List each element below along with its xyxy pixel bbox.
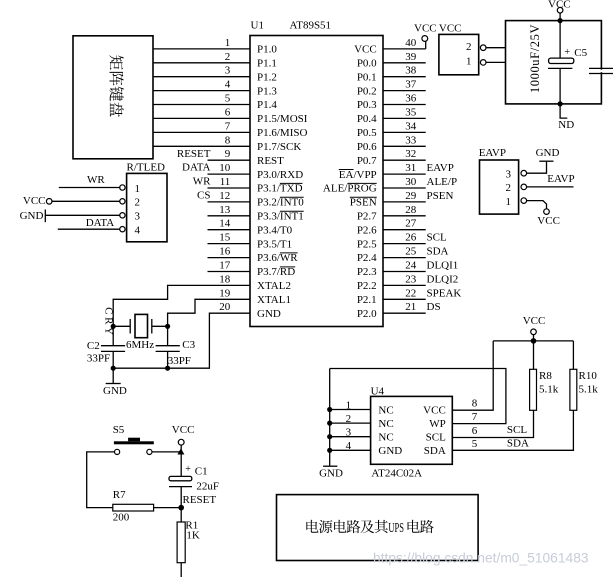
svg-text:P3.3/INT1: P3.3/INT1 <box>257 211 304 223</box>
svg-text:https://blog.csdn.net/m0_51061: https://blog.csdn.net/m0_51061483 <box>373 551 589 566</box>
svg-text:36: 36 <box>405 93 417 105</box>
svg-text:AT24C02A: AT24C02A <box>371 467 422 479</box>
svg-text:1: 1 <box>346 399 352 411</box>
svg-text:25: 25 <box>405 246 417 258</box>
svg-text:9: 9 <box>225 148 231 160</box>
svg-text:1: 1 <box>466 56 472 68</box>
power VCC to R/TLED pin2 <box>23 195 120 207</box>
svg-text:ALE/PROG: ALE/PROG <box>323 183 377 195</box>
svg-text:1000uF/25V: 1000uF/25V <box>528 24 542 93</box>
svg-text:GND: GND <box>536 147 560 159</box>
svg-text:U1: U1 <box>251 20 264 32</box>
svg-text:NC: NC <box>378 432 393 444</box>
svg-text:P1.4: P1.4 <box>257 99 277 111</box>
ground GND at EA/VP pin3 <box>526 147 559 173</box>
U4 right pin numbers 8-5 <box>472 398 478 450</box>
svg-text:PSEN: PSEN <box>427 190 454 202</box>
svg-text:31: 31 <box>405 162 416 174</box>
svg-text:2: 2 <box>466 41 472 53</box>
svg-text:2: 2 <box>135 197 141 209</box>
svg-text:ND: ND <box>558 119 574 131</box>
svg-text:8: 8 <box>472 398 478 410</box>
U1 right pin numbers 40-21 <box>405 37 417 313</box>
svg-text:2: 2 <box>225 51 231 63</box>
capacitor C1 22uF <box>169 452 219 508</box>
svg-text:2: 2 <box>506 182 512 194</box>
svg-text:WP: WP <box>429 418 446 430</box>
svg-text:GND: GND <box>378 445 402 457</box>
svg-text:WR: WR <box>87 174 105 186</box>
svg-text:VCC: VCC <box>414 22 437 34</box>
svg-text:P2.4: P2.4 <box>357 252 377 264</box>
svg-text:P3.5/T1: P3.5/T1 <box>257 238 292 250</box>
wire U4 pin8 VCC riser <box>452 341 493 410</box>
node crystal left <box>111 324 116 329</box>
svg-text:VCC: VCC <box>23 195 46 207</box>
svg-text:DATA: DATA <box>182 162 211 174</box>
wire WR to R/TLED pin1 <box>59 174 120 187</box>
node crystal right <box>165 324 170 329</box>
capacitor C3 33PF <box>156 326 196 368</box>
svg-text:11: 11 <box>220 176 231 188</box>
svg-text:17: 17 <box>219 260 231 272</box>
svg-text:1: 1 <box>225 37 231 49</box>
svg-text:5: 5 <box>225 93 231 105</box>
U1 right net labels <box>427 162 462 313</box>
svg-text:NC: NC <box>378 418 393 430</box>
svg-text:3: 3 <box>135 211 141 223</box>
svg-text:P1.0: P1.0 <box>257 44 277 56</box>
wire S5 right to VCC node <box>152 451 181 453</box>
svg-text:7: 7 <box>225 120 231 132</box>
svg-text:P3.6/WR: P3.6/WR <box>257 252 298 264</box>
svg-text:P0.1: P0.1 <box>357 71 377 83</box>
svg-text:23: 23 <box>405 273 417 285</box>
svg-text:EAVP: EAVP <box>547 173 574 185</box>
node C3 ground <box>165 366 170 371</box>
svg-text:GND: GND <box>103 385 127 397</box>
svg-text:R10: R10 <box>579 370 598 382</box>
node RESET junction <box>178 505 184 511</box>
U1 right pin stubs 40-21 <box>383 49 426 313</box>
resistor R10 5.1k <box>570 341 598 410</box>
U1 left label overlines <box>280 183 304 267</box>
svg-text:21: 21 <box>405 301 416 313</box>
svg-text:10: 10 <box>219 162 231 174</box>
ground GND crystal <box>103 368 127 397</box>
svg-text:5.1k: 5.1k <box>579 383 599 395</box>
svg-text:2: 2 <box>346 413 352 425</box>
U4 left pin stubs 1-4 with rail <box>330 369 371 467</box>
svg-text:SPEAK: SPEAK <box>427 287 462 299</box>
svg-text:SCL: SCL <box>426 432 446 444</box>
U1 right label overlines <box>339 170 377 198</box>
svg-text:+: + <box>564 47 570 58</box>
wire U1 pin20 GND down to ground rail <box>113 313 250 368</box>
svg-text:P3.7/RD: P3.7/RD <box>257 266 295 278</box>
net labels RESET DATA WR CS <box>177 148 211 202</box>
svg-text:35: 35 <box>405 106 417 118</box>
svg-text:38: 38 <box>405 65 417 77</box>
svg-text:27: 27 <box>405 218 417 230</box>
svg-text:37: 37 <box>405 79 417 91</box>
svg-text:14: 14 <box>219 218 231 230</box>
wire VCC rail U4 pullups <box>493 340 573 342</box>
svg-text:PSEN: PSEN <box>350 197 377 209</box>
svg-text:EA/VPP: EA/VPP <box>339 169 377 181</box>
mcu U1 AT89S51 <box>250 20 383 327</box>
svg-text:AT89S51: AT89S51 <box>290 20 332 32</box>
wire DATA to R/TLED pin4 <box>58 217 120 229</box>
ground GND U4 <box>319 466 343 479</box>
svg-text:RESET: RESET <box>177 148 211 160</box>
svg-text:P2.5: P2.5 <box>357 238 377 250</box>
svg-text:39: 39 <box>405 51 417 63</box>
connector VCC 2-pin <box>439 22 486 75</box>
wire net EAVP at pin2 <box>526 173 574 187</box>
power filter box <box>506 21 602 104</box>
svg-text:NC: NC <box>378 404 393 416</box>
svg-text:33PF: 33PF <box>87 353 110 365</box>
svg-text:1: 1 <box>506 196 512 208</box>
svg-text:6: 6 <box>225 106 231 118</box>
svg-text:19: 19 <box>219 287 231 299</box>
svg-text:P2.6: P2.6 <box>357 224 377 236</box>
svg-text:200: 200 <box>113 511 130 523</box>
box 电源电路及其UPS电路 <box>277 495 479 561</box>
svg-text:R8: R8 <box>539 370 552 382</box>
svg-text:DS: DS <box>427 301 441 313</box>
svg-text:C1: C1 <box>195 466 208 478</box>
resistor R7 200 <box>113 489 181 523</box>
power VCC U4 <box>523 315 546 344</box>
node C2 ground <box>111 366 116 371</box>
svg-text:C3: C3 <box>182 339 195 351</box>
svg-text:VCC: VCC <box>537 215 560 227</box>
svg-text:GND: GND <box>319 467 343 479</box>
connector EA/VP <box>479 147 527 214</box>
svg-text:EAVP: EAVP <box>427 162 454 174</box>
capacitor bypass right <box>589 68 613 73</box>
svg-text:1K: 1K <box>186 530 200 542</box>
svg-text:+: + <box>185 464 191 475</box>
svg-text:C2: C2 <box>87 340 100 352</box>
svg-text:VCC: VCC <box>423 404 446 416</box>
svg-text:3: 3 <box>506 168 512 180</box>
svg-text:ALE/P: ALE/P <box>427 176 458 188</box>
svg-text:SDA: SDA <box>424 445 446 457</box>
svg-text:28: 28 <box>405 204 417 216</box>
wire connector pin1 to filter box <box>486 61 506 63</box>
svg-text:6: 6 <box>472 425 478 437</box>
svg-text:P3.1/TXD: P3.1/TXD <box>257 183 303 195</box>
svg-text:P0.4: P0.4 <box>357 113 377 125</box>
svg-text:P0.7: P0.7 <box>357 155 377 167</box>
svg-text:P1.3: P1.3 <box>257 85 277 97</box>
svg-text:XTAL1: XTAL1 <box>257 294 291 306</box>
svg-text:13: 13 <box>219 204 231 216</box>
svg-text:VCC: VCC <box>523 315 546 327</box>
svg-text:P1.1: P1.1 <box>257 58 277 70</box>
ground GND to R/TLED pin3 <box>20 210 121 223</box>
capacitor C2 33PF <box>87 326 125 368</box>
svg-text:C5: C5 <box>574 47 587 59</box>
svg-text:4: 4 <box>346 440 352 452</box>
svg-text:15: 15 <box>219 232 231 244</box>
svg-text:29: 29 <box>405 190 417 202</box>
wire connector pin2 to filter box <box>486 47 506 49</box>
wire S5 left to R7 <box>87 452 115 508</box>
svg-text:P2.1: P2.1 <box>357 294 377 306</box>
svg-text:R/TLED: R/TLED <box>127 162 166 174</box>
svg-text:4: 4 <box>135 225 141 237</box>
U1 right pin labels <box>323 44 377 320</box>
svg-text:REST: REST <box>257 155 284 167</box>
U1 left pin numbers 1-20 <box>219 37 231 313</box>
svg-text:XTAL2: XTAL2 <box>257 280 291 292</box>
svg-text:P1.6/MISO: P1.6/MISO <box>257 127 307 139</box>
eeprom U4 AT24C02A <box>371 385 453 479</box>
svg-text:24: 24 <box>405 260 417 272</box>
svg-text:S5: S5 <box>113 424 125 436</box>
power VCC at filter <box>548 0 571 23</box>
button S5 <box>113 424 154 454</box>
svg-text:P1.5/MOSI: P1.5/MOSI <box>257 113 308 125</box>
matrix keyboard 矩阵键盘 <box>73 36 153 159</box>
svg-text:18: 18 <box>219 273 231 285</box>
svg-text:P3.0/RXD: P3.0/RXD <box>257 169 303 181</box>
svg-text:4: 4 <box>225 79 231 91</box>
svg-text:SDA: SDA <box>507 437 529 449</box>
svg-text:UPS: UPS <box>388 521 404 536</box>
svg-text:8: 8 <box>225 134 231 146</box>
svg-text:WR: WR <box>193 176 211 188</box>
svg-text:5: 5 <box>472 438 478 450</box>
svg-text:R7: R7 <box>113 489 126 501</box>
svg-text:SCL: SCL <box>507 424 527 436</box>
svg-text:7: 7 <box>472 411 478 423</box>
svg-text:26: 26 <box>405 232 417 244</box>
svg-text:VCC: VCC <box>354 44 377 56</box>
svg-text:P0.6: P0.6 <box>357 141 377 153</box>
crystal Y1 6MHz <box>113 314 167 351</box>
svg-text:P2.2: P2.2 <box>357 280 377 292</box>
svg-text:P0.5: P0.5 <box>357 127 377 139</box>
svg-text:30: 30 <box>405 176 417 188</box>
svg-text:P0.3: P0.3 <box>357 99 377 111</box>
svg-text:20: 20 <box>219 301 231 313</box>
svg-text:P0.2: P0.2 <box>357 85 377 97</box>
svg-text:DLQI2: DLQI2 <box>427 273 459 285</box>
svg-text:16: 16 <box>219 246 231 258</box>
svg-text:C: C <box>103 307 115 314</box>
svg-text:P2.3: P2.3 <box>357 266 377 278</box>
svg-text:DATA: DATA <box>86 217 115 229</box>
wire U1 pin19 XTAL1 to crystal right node <box>168 299 250 326</box>
wire U4 pin5 SDA to R10 <box>452 410 573 450</box>
ground ND below filter <box>558 104 574 131</box>
svg-text:34: 34 <box>405 120 417 132</box>
svg-text:SCL: SCL <box>427 232 447 244</box>
U1 left pin stubs 9-17 <box>208 160 251 271</box>
svg-text:SDA: SDA <box>427 246 449 258</box>
svg-text:P2.7: P2.7 <box>357 211 377 223</box>
resistor R1 1K <box>177 508 200 577</box>
power VCC at EA/VP pin1 <box>526 201 560 227</box>
svg-text:GND: GND <box>257 308 281 320</box>
resistor R8 5.1k <box>530 341 559 410</box>
svg-text:P1.7/SCK: P1.7/SCK <box>257 141 301 153</box>
svg-text:6MHz: 6MHz <box>126 339 154 351</box>
svg-text:EAVP: EAVP <box>479 147 506 159</box>
svg-text:VCC: VCC <box>439 22 462 34</box>
svg-text:12: 12 <box>219 190 230 202</box>
svg-text:22uF: 22uF <box>196 481 219 493</box>
svg-text:22: 22 <box>405 287 416 299</box>
svg-text:P2.0: P2.0 <box>357 308 377 320</box>
svg-text:3: 3 <box>225 65 231 77</box>
capacitor C5 1000uF/25V <box>548 21 588 107</box>
wire U1 pin18 XTAL2 to crystal left node <box>113 285 250 326</box>
svg-text:P0.0: P0.0 <box>357 58 377 70</box>
U1 left pin labels <box>257 44 308 320</box>
svg-text:33PF: 33PF <box>168 355 191 367</box>
svg-text:RESET: RESET <box>183 494 217 506</box>
svg-text:CS: CS <box>197 190 210 202</box>
connector R/TLED <box>120 162 167 242</box>
svg-text:P1.2: P1.2 <box>257 71 277 83</box>
svg-text:GND: GND <box>20 210 44 222</box>
svg-text:3: 3 <box>346 427 352 439</box>
nodes U4 pins 1-4 <box>327 407 332 412</box>
svg-text:VCC: VCC <box>172 424 195 436</box>
power VCC reset <box>172 424 195 454</box>
svg-text:P3.2/INT0: P3.2/INT0 <box>257 197 304 209</box>
svg-text:1: 1 <box>135 183 141 195</box>
wire U4 pin6 SCL to R8 <box>452 410 533 437</box>
wire U4 pin7 WP to ground rail <box>330 369 506 424</box>
svg-text:DLQI1: DLQI1 <box>427 260 459 272</box>
svg-text:33: 33 <box>405 134 417 146</box>
power VCC at U1 pin40 <box>414 22 437 49</box>
svg-text:P3.4/T0: P3.4/T0 <box>257 224 293 236</box>
svg-text:32: 32 <box>405 148 416 160</box>
wire keyboard to U1 pins 1-8 <box>153 49 250 146</box>
svg-text:40: 40 <box>405 37 417 49</box>
svg-text:5.1k: 5.1k <box>539 383 559 395</box>
